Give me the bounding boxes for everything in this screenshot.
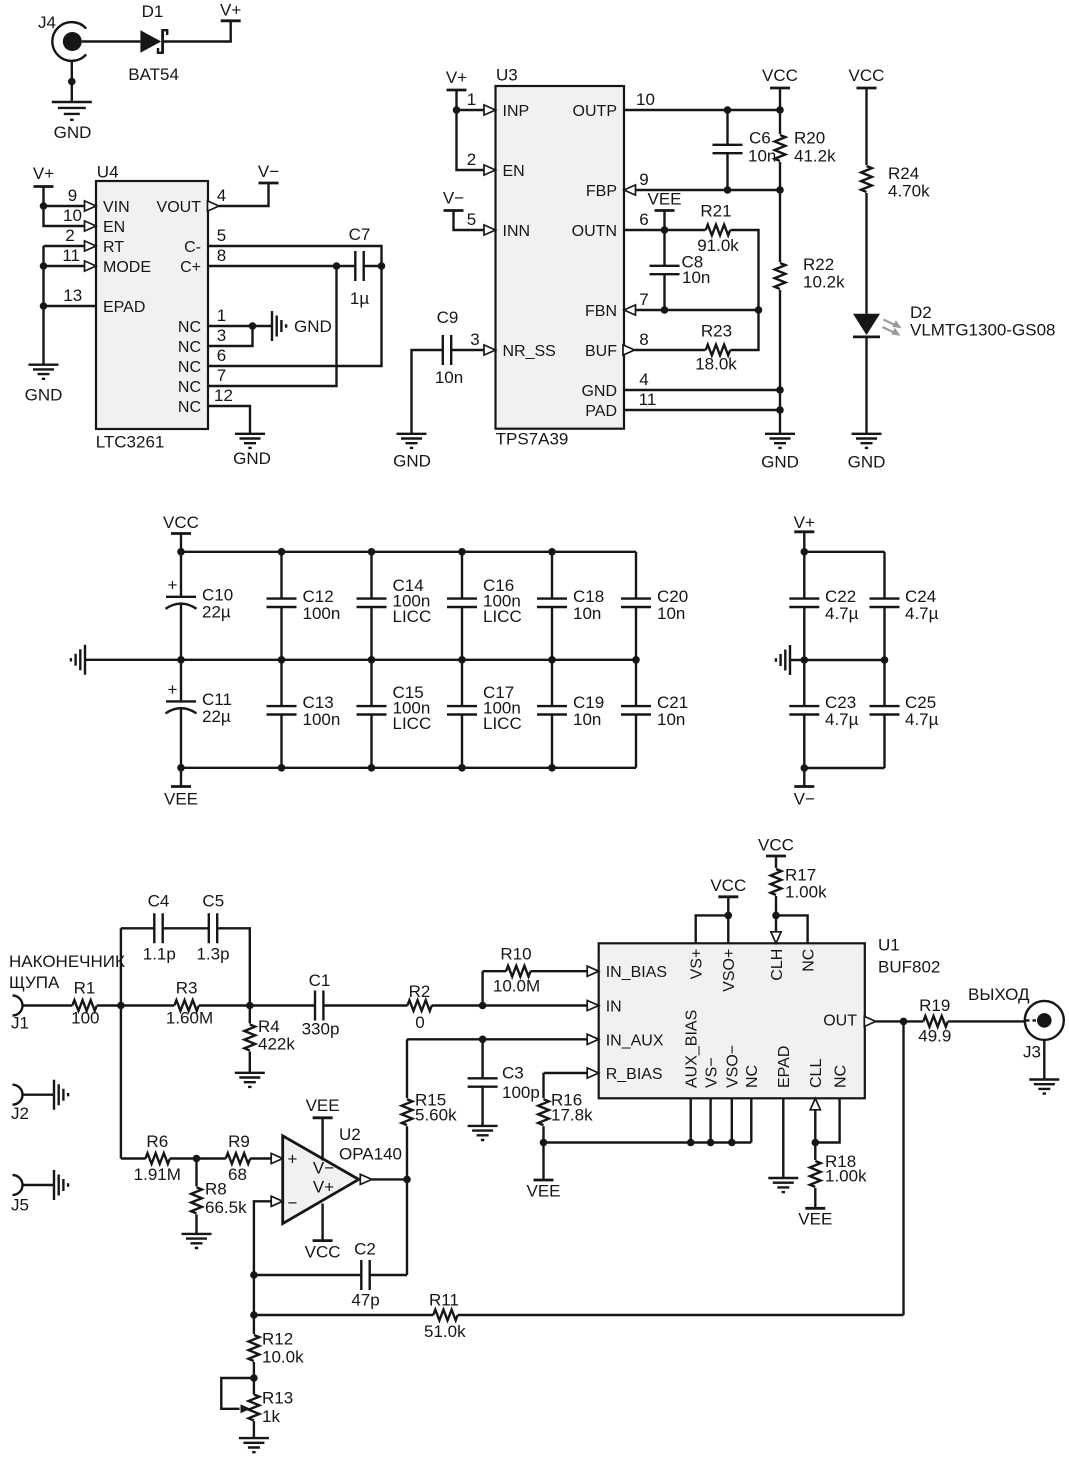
- ground at J2: [54, 1080, 68, 1110]
- svg-text:V+: V+: [313, 1178, 334, 1197]
- svg-text:−: −: [288, 1194, 298, 1213]
- svg-text:+: +: [168, 680, 178, 699]
- svg-text:11: 11: [639, 390, 657, 409]
- wire OUTN to R21: [624, 229, 706, 231]
- svg-text:VEE: VEE: [306, 1096, 340, 1115]
- wire RT MODE EPAD to ground: [44, 246, 97, 365]
- wire feedback to R11: [254, 1314, 433, 1316]
- svg-text:49.9: 49.9: [918, 1027, 951, 1046]
- svg-text:GND: GND: [761, 453, 799, 472]
- svg-text:C-: C-: [184, 239, 201, 256]
- svg-text:4: 4: [217, 186, 226, 205]
- svg-text:1.1p: 1.1p: [143, 945, 176, 964]
- junction VS-: [707, 1139, 715, 1147]
- svg-text:VOUT: VOUT: [157, 199, 202, 216]
- svg-text:LICC: LICC: [483, 607, 522, 626]
- resistor R15 5.60k: [402, 1039, 457, 1125]
- svg-text:100: 100: [71, 1009, 99, 1028]
- svg-text:10n: 10n: [682, 268, 710, 287]
- junction C+ branch: [333, 262, 341, 270]
- pin arrow IN_BIAS: [587, 966, 599, 976]
- wire right bank mid rail: [790, 659, 885, 661]
- svg-text:+: +: [288, 1150, 298, 1169]
- junction V+ VIN: [40, 202, 48, 210]
- wire FBN node to R23: [731, 310, 759, 350]
- connector J4: [38, 13, 86, 61]
- svg-text:D1: D1: [142, 2, 164, 21]
- resistor R17 1.00k: [771, 856, 827, 902]
- pin arrow R_BIAS: [587, 1068, 599, 1078]
- svg-text:GND: GND: [581, 383, 617, 400]
- wire R1 to node: [97, 1004, 121, 1006]
- svg-text:U2: U2: [339, 1125, 361, 1144]
- svg-text:RT: RT: [103, 239, 124, 256]
- svg-text:NC: NC: [178, 359, 201, 376]
- capacitor C5 1.3p: [196, 892, 229, 964]
- svg-text:4.7µ: 4.7µ: [905, 710, 939, 729]
- power terminal V+ at U4: [33, 164, 54, 187]
- svg-text:422k: 422k: [258, 1035, 295, 1054]
- wire R3 to C1: [199, 1004, 315, 1006]
- wire VCC to VS+ VSO+: [696, 897, 729, 944]
- power terminal VCC at U2: [305, 1204, 341, 1262]
- wire R12 to R13: [253, 1362, 255, 1395]
- junction FBP R20: [776, 186, 784, 194]
- wire C5 to R3 node: [217, 928, 250, 1005]
- wire input node vertical: [120, 928, 122, 1158]
- svg-text:VCC: VCC: [710, 876, 746, 895]
- capacitor C22 4.7u: [789, 552, 858, 660]
- svg-text:10n: 10n: [748, 147, 776, 166]
- wire V+ to VIN and EN: [44, 187, 97, 227]
- LED D2 VLMTG1300-GS08: [853, 303, 1056, 340]
- svg-text:+: +: [168, 576, 178, 595]
- svg-text:BAT54: BAT54: [128, 65, 179, 84]
- junction mid rail C18: [548, 656, 556, 664]
- wire J4 to D1: [82, 40, 141, 42]
- wire AUX_BIAS stub: [690, 1098, 692, 1142]
- svg-text:CLH: CLH: [769, 949, 786, 981]
- power terminal V- at U3: [443, 189, 464, 211]
- svg-text:18.0k: 18.0k: [695, 355, 737, 374]
- svg-text:V+: V+: [794, 513, 815, 532]
- wire R6 to R9: [170, 1157, 226, 1159]
- power terminal V- at VOUT: [258, 162, 279, 183]
- svg-text:2: 2: [467, 150, 476, 169]
- svg-text:VEE: VEE: [526, 1182, 560, 1201]
- power terminal V- at right bank: [794, 787, 815, 809]
- power terminal V+ at U3: [446, 68, 467, 90]
- svg-text:6: 6: [639, 210, 648, 229]
- capacitor C15 100n LICC: [357, 660, 432, 768]
- ground symbol at right mid rail: [776, 645, 790, 675]
- svg-text:R22: R22: [803, 255, 834, 274]
- wire OUT feedback down: [902, 1021, 904, 1315]
- op-amp U2 OPA140: [283, 1125, 402, 1224]
- capacitor C13 100n: [267, 660, 341, 768]
- svg-text:FBN: FBN: [585, 303, 617, 320]
- wire BUF to R23: [635, 349, 706, 351]
- resistor R23 18.0k: [695, 322, 737, 374]
- junction mid rail C14: [368, 656, 376, 664]
- junction R6 R8 R9: [193, 1155, 201, 1163]
- capacitor C24 4.7u: [870, 552, 939, 660]
- svg-text:GND: GND: [25, 386, 63, 405]
- wire GND pin: [624, 389, 780, 391]
- wire C+ to C7: [208, 265, 355, 267]
- node label PROBE TIP: [9, 952, 125, 992]
- svg-text:R12: R12: [262, 1330, 293, 1349]
- wire C2 left: [254, 1274, 361, 1276]
- svg-text:OPA140: OPA140: [339, 1145, 402, 1164]
- junction FBP C6: [724, 186, 732, 194]
- svg-text:V+: V+: [220, 1, 241, 20]
- wire NC1 NC3 to ground: [208, 326, 272, 346]
- svg-text:1: 1: [217, 306, 226, 325]
- junction NC1 NC3: [249, 322, 257, 330]
- resistor R9 68: [226, 1132, 250, 1184]
- pin arrow VOUT output: [208, 201, 220, 211]
- svg-text:3: 3: [470, 330, 479, 349]
- svg-text:10.0k: 10.0k: [262, 1348, 304, 1367]
- wire R10 to IN_BIAS: [531, 970, 588, 972]
- wire node to R3: [121, 1004, 174, 1006]
- svg-text:1: 1: [467, 90, 476, 109]
- svg-text:VCC: VCC: [758, 836, 794, 855]
- svg-text:1k: 1k: [262, 1407, 280, 1426]
- svg-text:U1: U1: [878, 936, 900, 955]
- svg-text:1.3p: 1.3p: [196, 945, 229, 964]
- junction IN_AUX C3: [479, 1036, 487, 1044]
- junction FBN R21 R23: [755, 306, 763, 314]
- wire VS- stub: [709, 1098, 711, 1142]
- svg-text:NC: NC: [178, 399, 201, 416]
- svg-text:NC: NC: [801, 949, 818, 972]
- svg-text:10n: 10n: [657, 604, 685, 623]
- junction mid rail C20: [632, 656, 640, 664]
- pin arrow EN: [85, 221, 97, 231]
- svg-text:GND: GND: [393, 452, 431, 471]
- svg-text:EN: EN: [103, 219, 125, 236]
- power terminal VEE at OUTN: [647, 190, 681, 211]
- junction J4 ground: [68, 78, 76, 86]
- capacitor C11 22u polarized: [166, 660, 232, 768]
- junction top rail C10: [177, 548, 185, 556]
- ground GND below J4: [52, 102, 92, 142]
- wire R8 to ground: [195, 1214, 197, 1234]
- wire OUTP to VCC: [624, 109, 780, 111]
- junction J1 node: [117, 1002, 125, 1010]
- svg-text:НАКОНЕЧНИК: НАКОНЕЧНИК: [9, 952, 125, 971]
- resistor R21 91.0k: [697, 202, 739, 256]
- svg-text:C4: C4: [148, 892, 170, 911]
- svg-text:TPS7A39: TPS7A39: [496, 430, 569, 449]
- capacitor C4 1.1p: [143, 892, 176, 964]
- wire J4 to ground: [71, 61, 73, 102]
- svg-text:10n: 10n: [573, 604, 601, 623]
- ground below EPAD: [768, 1178, 798, 1192]
- svg-text:VEE: VEE: [798, 1210, 832, 1229]
- capacitor C8 10n: [650, 230, 711, 310]
- ground GND below U3: [761, 434, 799, 472]
- svg-text:R19: R19: [919, 996, 950, 1015]
- junction V+ INP: [453, 106, 461, 114]
- wire J3 to ground: [1043, 1040, 1045, 1080]
- svg-text:R4: R4: [258, 1017, 280, 1036]
- svg-text:10n: 10n: [435, 368, 463, 387]
- svg-text:10.2k: 10.2k: [803, 273, 845, 292]
- resistor R19 49.9: [918, 996, 951, 1046]
- wire R16 to VEE: [542, 1126, 544, 1180]
- svg-text:41.2k: 41.2k: [794, 147, 836, 166]
- svg-text:GND: GND: [294, 317, 332, 336]
- wire VEE stub: [663, 211, 665, 231]
- svg-text:12: 12: [214, 386, 233, 405]
- svg-text:100n: 100n: [303, 604, 341, 623]
- svg-text:R9: R9: [228, 1132, 250, 1151]
- capacitor C3 100p: [468, 1039, 540, 1126]
- wire R15 to output: [406, 1126, 408, 1179]
- svg-text:C9: C9: [437, 308, 459, 327]
- svg-text:4.7µ: 4.7µ: [905, 604, 939, 623]
- pin arrow CLH down: [771, 932, 781, 944]
- junction EPAD: [40, 302, 48, 310]
- svg-text:100p: 100p: [502, 1083, 540, 1102]
- junction FBN C8: [661, 306, 669, 314]
- svg-text:100n: 100n: [303, 710, 341, 729]
- svg-text:OUTN: OUTN: [572, 223, 617, 240]
- junction R12 R13 wiper: [250, 1374, 258, 1382]
- svg-text:V−: V−: [443, 189, 464, 208]
- junction top rail C14: [368, 548, 376, 556]
- capacitor C25 4.7u: [870, 660, 939, 768]
- svg-text:8: 8: [639, 330, 648, 349]
- svg-text:330p: 330p: [302, 1020, 340, 1039]
- wire mid ground rail: [85, 659, 636, 661]
- svg-text:GND: GND: [848, 453, 886, 472]
- junction CLL R18: [812, 1139, 820, 1147]
- resistor R12 10.0k: [249, 1315, 305, 1367]
- ground GND below C9: [393, 434, 431, 471]
- ground below R8: [182, 1234, 212, 1248]
- svg-text:9: 9: [68, 186, 77, 205]
- capacitor C1 330p: [302, 971, 340, 1039]
- capacitor C12 100n: [267, 552, 341, 660]
- connector J5: [11, 1175, 29, 1215]
- wire C7 to C- loop: [364, 265, 382, 267]
- wire R13 to ground: [253, 1421, 255, 1438]
- svg-text:5: 5: [217, 226, 226, 245]
- svg-text:R10: R10: [500, 945, 531, 964]
- svg-text:OUTP: OUTP: [573, 103, 617, 120]
- wire R19 to J3: [948, 1020, 1025, 1022]
- svg-text:VIN: VIN: [103, 199, 130, 216]
- wire J1 to R1: [23, 1004, 73, 1006]
- capacitor C9 10n: [435, 308, 463, 387]
- junction top rail C18: [548, 548, 556, 556]
- svg-text:VS−: VS−: [704, 1057, 721, 1088]
- wire right bank bottom rail: [804, 767, 884, 769]
- power terminal VCC at R17: [758, 836, 794, 857]
- connector J1: [11, 996, 29, 1033]
- svg-text:47p: 47p: [351, 1291, 379, 1310]
- wire R20 to FBP: [624, 162, 780, 190]
- power terminal VEE at bank: [164, 787, 198, 809]
- svg-text:AUX_BIAS: AUX_BIAS: [684, 1010, 701, 1088]
- svg-text:IN_BIAS: IN_BIAS: [606, 964, 667, 981]
- svg-text:J2: J2: [11, 1104, 29, 1123]
- svg-text:C+: C+: [180, 259, 201, 276]
- connector J3: [1023, 1001, 1064, 1062]
- svg-text:R20: R20: [794, 129, 825, 148]
- resistor R8 66.5k: [191, 1159, 247, 1218]
- svg-text:BUF: BUF: [585, 343, 617, 360]
- junction AUX_BIAS: [687, 1139, 695, 1147]
- svg-text:VS+: VS+: [689, 949, 706, 980]
- pin arrow opamp output: [360, 1174, 372, 1184]
- svg-text:CLL: CLL: [808, 1059, 825, 1088]
- svg-text:R13: R13: [262, 1389, 293, 1408]
- svg-text:IN: IN: [606, 999, 622, 1016]
- wire right bank top rail: [804, 551, 884, 553]
- pin arrow BUF output: [623, 345, 635, 355]
- wire VEE bottom rail: [181, 767, 636, 769]
- wire OUT: [876, 1020, 924, 1022]
- ground GND below NC12: [233, 434, 271, 468]
- svg-text:ВЫХОД: ВЫХОД: [968, 985, 1030, 1004]
- wire R21 to FBN node: [731, 230, 759, 310]
- resistor R22 10.2k: [775, 190, 845, 292]
- wire NC stub to bias rail: [750, 1098, 752, 1142]
- svg-text:VCC: VCC: [163, 513, 199, 532]
- ground at J5: [54, 1170, 68, 1200]
- junction right mid rail C24: [881, 656, 889, 664]
- wire FBN: [624, 309, 759, 311]
- ground symbol at mid rail: [71, 645, 85, 675]
- wire VSO- stub: [731, 1098, 733, 1142]
- pin arrow VIN: [85, 201, 97, 211]
- pin arrow FBN input: [624, 305, 636, 315]
- svg-text:EPAD: EPAD: [776, 1046, 793, 1088]
- capacitor C19 10n: [537, 660, 604, 768]
- svg-text:C6: C6: [749, 129, 771, 148]
- power terminal V+: [220, 1, 241, 21]
- svg-text:5: 5: [467, 210, 476, 229]
- resistor R24 4.70k: [861, 164, 930, 201]
- svg-text:22µ: 22µ: [202, 603, 231, 622]
- svg-text:EN: EN: [503, 163, 525, 180]
- wire node to R6: [121, 1157, 146, 1159]
- svg-text:D2: D2: [910, 303, 932, 322]
- svg-text:C1: C1: [309, 971, 331, 990]
- capacitor C14 100n LICC: [357, 552, 432, 660]
- svg-text:J4: J4: [38, 13, 56, 32]
- power terminal VCC at R24: [849, 66, 885, 88]
- wire D2 to ground: [865, 337, 867, 434]
- wire C9 to NR_SS: [451, 349, 495, 351]
- junction bottom rail C11: [177, 764, 185, 772]
- wire node to C4: [121, 927, 154, 929]
- svg-text:LICC: LICC: [393, 607, 432, 626]
- ground GND below U4: [25, 365, 63, 405]
- ground below J3: [1029, 1080, 1059, 1094]
- svg-text:10: 10: [636, 90, 655, 109]
- junction top rail C16: [458, 548, 466, 556]
- junction OUTP VCC: [776, 106, 784, 114]
- power terminal V+ at right bank: [794, 513, 815, 532]
- capacitor C16 100n LICC: [447, 552, 522, 660]
- junction output R15: [403, 1176, 411, 1184]
- svg-text:NC: NC: [744, 1065, 761, 1088]
- junction mid rail C16: [458, 656, 466, 664]
- wire C1 to R2: [323, 1004, 407, 1006]
- svg-text:INP: INP: [503, 103, 530, 120]
- svg-text:NC: NC: [833, 1065, 850, 1088]
- svg-text:C2: C2: [354, 1240, 376, 1259]
- wire NC12 to ground: [208, 406, 250, 434]
- svg-text:NR_SS: NR_SS: [503, 343, 556, 360]
- capacitor C20 10n: [621, 552, 688, 660]
- capacitor C18 10n: [537, 552, 604, 660]
- svg-text:VCC: VCC: [305, 1243, 341, 1262]
- svg-text:J5: J5: [11, 1196, 29, 1215]
- pin arrow INN: [484, 225, 496, 235]
- wire C9 to ground: [412, 350, 443, 434]
- capacitor C6 10n: [713, 110, 777, 190]
- capacitor C10 22u polarized: [166, 552, 234, 660]
- wire PAD pin: [624, 409, 780, 411]
- svg-text:V−: V−: [794, 790, 815, 809]
- svg-text:68: 68: [228, 1165, 247, 1184]
- pin arrow INP: [484, 105, 496, 115]
- svg-text:MODE: MODE: [103, 259, 151, 276]
- svg-text:R3: R3: [176, 979, 198, 998]
- wire bottom rail to V-: [803, 768, 805, 787]
- svg-text:PAD: PAD: [585, 403, 617, 420]
- svg-text:U4: U4: [97, 163, 119, 182]
- ground GND at NC1: [272, 311, 332, 341]
- resistor R3 1.60M: [166, 979, 213, 1028]
- ground below R13: [239, 1438, 269, 1452]
- pin arrow EN: [484, 165, 496, 175]
- wire opamp minus input: [254, 1201, 272, 1275]
- svg-text:1.00k: 1.00k: [785, 883, 827, 902]
- wire C- loop to NC6: [208, 246, 382, 366]
- svg-text:1µ: 1µ: [350, 289, 369, 308]
- wire J2 to ground: [23, 1093, 55, 1095]
- ground below C3: [468, 1126, 498, 1140]
- wire C2 right: [370, 1179, 407, 1275]
- wire R4 to ground: [249, 1052, 251, 1073]
- junction right top rail: [801, 548, 809, 556]
- svg-text:VEE: VEE: [647, 190, 681, 209]
- junction mid rail C10: [177, 656, 185, 664]
- ground GND below D2: [848, 434, 886, 472]
- pin arrow RT: [85, 241, 97, 251]
- junction GND pin: [776, 386, 784, 394]
- svg-text:R11: R11: [429, 1291, 459, 1310]
- junction mid rail C12: [278, 656, 286, 664]
- svg-text:R6: R6: [146, 1132, 168, 1151]
- capacitor C23 4.7u: [789, 660, 858, 768]
- svg-text:V+: V+: [33, 164, 54, 183]
- svg-text:10n: 10n: [657, 710, 685, 729]
- svg-text:17.8k: 17.8k: [551, 1106, 593, 1125]
- capacitor C21 10n: [621, 660, 688, 768]
- wire EPAD stub: [782, 1098, 784, 1178]
- junction bottom rail C15: [368, 764, 376, 772]
- wire D1 to V+: [164, 21, 231, 42]
